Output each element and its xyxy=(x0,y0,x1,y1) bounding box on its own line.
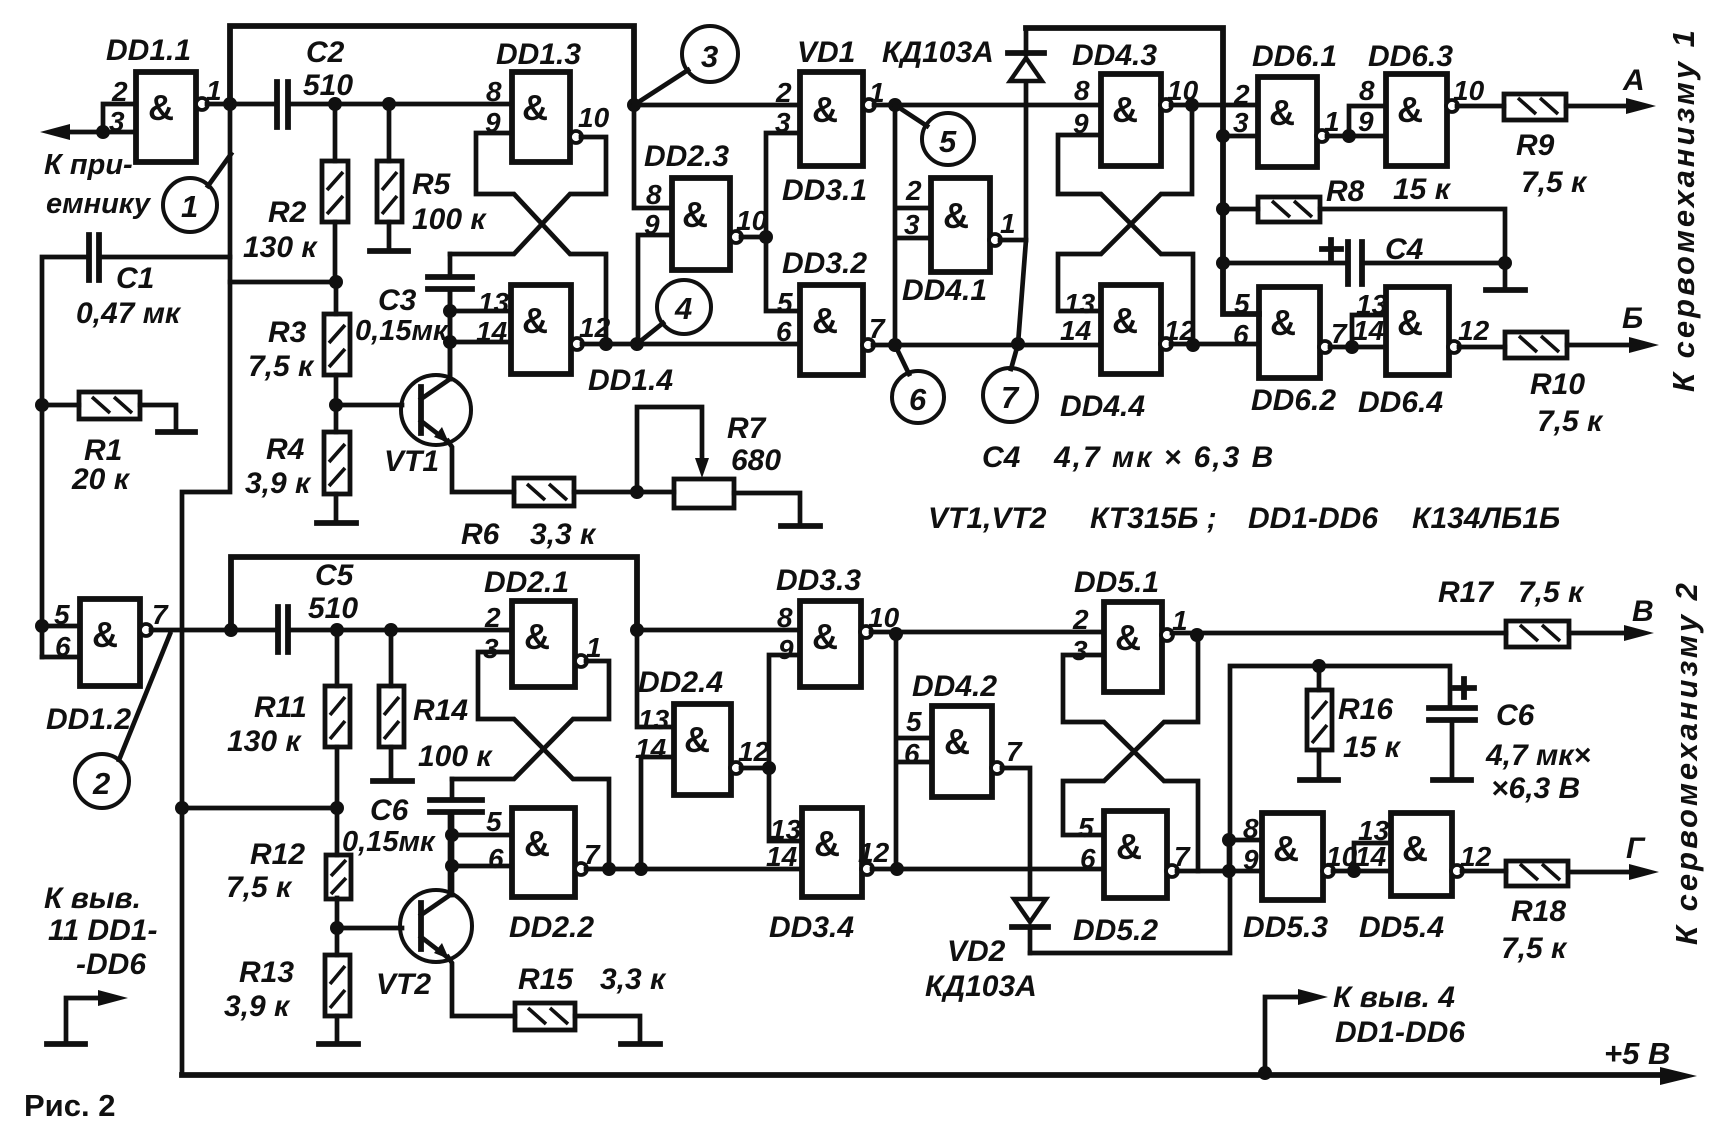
svg-text:0,15мк: 0,15мк xyxy=(342,826,436,858)
gate DD6.2 xyxy=(1233,287,1348,417)
svg-text:3,9 к: 3,9 к xyxy=(245,467,312,500)
gate DD3.2 xyxy=(776,247,886,375)
gate DD6.4 xyxy=(1353,287,1490,419)
svg-text:R2: R2 xyxy=(268,196,307,229)
svg-text:К выв. 4: К выв. 4 xyxy=(1333,981,1455,1014)
svg-text:R14: R14 xyxy=(413,694,468,727)
junction (606,344) xyxy=(599,337,613,351)
wire DD2.3 pin9 down to DD1.4 out xyxy=(638,235,672,344)
resistor R15 xyxy=(515,963,667,1042)
junction (452,835) xyxy=(445,828,459,842)
svg-text:DD3.3: DD3.3 xyxy=(776,564,861,597)
wire lower rail loop xyxy=(231,557,637,630)
gate DD5.1 xyxy=(1072,566,1188,692)
svg-text:C4: C4 xyxy=(1385,233,1424,266)
junction (766,237) xyxy=(759,230,773,244)
junction (895,345) xyxy=(888,338,902,352)
resistor R17 xyxy=(1438,576,1634,647)
svg-text:DD3.4: DD3.4 xyxy=(769,911,854,944)
wire C6 node to DD2.2 pins xyxy=(452,812,512,895)
svg-text:5: 5 xyxy=(939,124,957,159)
junction (42,405) xyxy=(35,398,49,412)
ground R4 xyxy=(317,520,356,526)
svg-text:3: 3 xyxy=(1072,635,1088,666)
svg-text:DD1-DD6: DD1-DD6 xyxy=(1335,1016,1465,1049)
junction (1319,666) xyxy=(1312,659,1326,673)
diode VD1 xyxy=(797,28,1044,344)
svg-text:&: & xyxy=(524,823,550,864)
svg-text:8: 8 xyxy=(1074,75,1090,106)
svg-text:6: 6 xyxy=(909,382,927,417)
svg-text:130 к: 130 к xyxy=(243,231,318,264)
wire DD1.2 inputs xyxy=(42,626,80,657)
wire DD3.3 out row xyxy=(871,630,1104,635)
junction (895,105) xyxy=(888,98,902,112)
wire DD3.2 out row xyxy=(873,343,1101,348)
wire DD3.3 node to DD4.2 pins xyxy=(896,634,932,869)
capacitor C4 xyxy=(1223,233,1505,284)
resistor R8 xyxy=(1223,173,1505,263)
wire base VT1 xyxy=(336,403,402,408)
wire DD5.1 out cross-loop to DD5.2 pin5 xyxy=(1063,633,1506,835)
resistor R18 xyxy=(1462,861,1639,965)
svg-text:VD2: VD2 xyxy=(947,935,1006,968)
svg-text:6: 6 xyxy=(488,843,504,874)
gate DD3.4 xyxy=(766,808,890,944)
svg-text:КД103А: КД103А xyxy=(925,970,1037,1003)
svg-text:DD6.2: DD6.2 xyxy=(1251,384,1336,417)
wire VT1 emitter xyxy=(448,441,514,492)
svg-text:12: 12 xyxy=(738,736,770,767)
svg-text:DD6.3: DD6.3 xyxy=(1368,40,1453,73)
svg-text:13: 13 xyxy=(638,704,670,735)
svg-text:8: 8 xyxy=(777,602,793,633)
ground R16 xyxy=(1300,777,1338,783)
node circle 6 xyxy=(892,345,944,423)
svg-text:1: 1 xyxy=(1000,208,1016,239)
svg-text:R7: R7 xyxy=(727,412,767,445)
svg-text:7,5 к: 7,5 к xyxy=(226,871,293,904)
svg-text:DD1.2: DD1.2 xyxy=(46,703,131,736)
capacitor C5 xyxy=(278,559,358,652)
resistor R13 xyxy=(224,928,350,1042)
gate DD4.4 xyxy=(1060,285,1196,423)
svg-text:9: 9 xyxy=(644,209,660,240)
svg-text:3: 3 xyxy=(701,39,718,74)
wire DD1.3 pin9 cross-loop (from DD1.4 out) xyxy=(476,133,606,344)
junction (1354,871) xyxy=(1347,864,1361,878)
svg-text:К сервомеханизму 2: К сервомеханизму 2 xyxy=(1669,580,1704,945)
svg-text:7,5 к: 7,5 к xyxy=(1518,576,1585,609)
resistor R3 xyxy=(248,282,350,405)
ground R14 xyxy=(373,778,412,784)
svg-text:К134ЛБ1Б: К134ЛБ1Б xyxy=(1412,502,1560,535)
gate DD3.1 xyxy=(775,72,885,207)
svg-text:8: 8 xyxy=(1243,813,1259,844)
gate DD1.3 xyxy=(485,38,610,162)
resistor R9 xyxy=(1457,94,1636,199)
ground C6-2 xyxy=(1433,777,1471,783)
svg-text:R6: R6 xyxy=(461,518,500,551)
svg-text:DD5.2: DD5.2 xyxy=(1073,914,1158,947)
svg-text:К при-: К при- xyxy=(44,149,133,181)
svg-text:&: & xyxy=(944,721,970,762)
svg-text:&: & xyxy=(524,616,550,657)
wire DD4.1 out to VD1 xyxy=(1000,238,1026,243)
gate DD4.3 xyxy=(1072,39,1199,166)
svg-text:14: 14 xyxy=(635,733,667,764)
svg-text:&: & xyxy=(92,614,118,655)
svg-text:7: 7 xyxy=(1001,380,1020,415)
gate DD4.1 xyxy=(902,175,1016,307)
svg-text:4: 4 xyxy=(674,291,692,326)
svg-text:12: 12 xyxy=(1460,841,1492,872)
resistor R4 xyxy=(245,405,350,521)
svg-text:&: & xyxy=(812,616,838,657)
svg-text:12: 12 xyxy=(1458,315,1490,346)
wire bias chain to lower rail xyxy=(182,257,230,1075)
wire R7 to ground xyxy=(734,493,800,524)
junction (1265,1073) xyxy=(1258,1066,1272,1080)
ground R13 xyxy=(319,1041,358,1047)
svg-text:510: 510 xyxy=(303,69,353,102)
svg-text:4,7 мк × 6,3 В: 4,7 мк × 6,3 В xyxy=(1053,441,1275,474)
svg-text:R17: R17 xyxy=(1438,576,1494,609)
svg-text:7,5 к: 7,5 к xyxy=(1501,932,1568,965)
wire DD6.1 out to DD6.3 pins xyxy=(1327,106,1386,136)
arrow К приемнику xyxy=(40,124,70,140)
svg-text:DD4.1: DD4.1 xyxy=(902,274,987,307)
junction (1349,136) xyxy=(1342,129,1356,143)
resistor R1 xyxy=(42,392,176,496)
svg-text:5: 5 xyxy=(1078,812,1094,843)
svg-text:DD5.3: DD5.3 xyxy=(1243,911,1328,944)
junction (1229,840) xyxy=(1222,833,1236,847)
junction (42,626) xyxy=(35,619,49,633)
capacitor C6 xyxy=(342,779,482,858)
svg-text:8: 8 xyxy=(646,179,662,210)
arrow output A xyxy=(1626,98,1656,114)
wire DD1.1 output xyxy=(207,102,277,107)
svg-text:DD3.2: DD3.2 xyxy=(782,247,867,280)
svg-text:R9: R9 xyxy=(1516,129,1555,162)
svg-text:R10: R10 xyxy=(1530,368,1585,401)
svg-text:VD1: VD1 xyxy=(797,36,855,69)
svg-text:&: & xyxy=(1402,828,1428,869)
wire R6 to R7 xyxy=(574,490,674,495)
wire DD3.1 out to DD4.3 pin8 xyxy=(874,103,1101,108)
svg-text:9: 9 xyxy=(1243,844,1259,875)
node circle 2 xyxy=(75,634,170,808)
junction (335,104) xyxy=(328,97,342,111)
diode VD2 xyxy=(925,899,1048,1003)
svg-text:-DD6: -DD6 xyxy=(76,948,146,981)
capacitor C1 xyxy=(42,104,230,657)
svg-text:R3: R3 xyxy=(268,316,307,349)
svg-text:5: 5 xyxy=(906,706,922,737)
gate DD2.3 xyxy=(644,140,768,270)
svg-text:3,9 к: 3,9 к xyxy=(224,990,291,1023)
junction (337,928) xyxy=(330,921,344,935)
svg-text:&: & xyxy=(522,300,548,341)
wire DD5.2 out row xyxy=(1177,869,1262,874)
gate DD3.3 xyxy=(776,564,900,687)
wire DD1.2 output row xyxy=(151,628,512,633)
junction (1223,209) xyxy=(1216,202,1230,216)
wire rail node to DD3.3 pin8 xyxy=(637,628,800,633)
capacitor C6-2 xyxy=(1319,666,1591,805)
svg-text:DD2.4: DD2.4 xyxy=(638,666,723,699)
arrow output Б xyxy=(1629,337,1659,353)
junction (1018,344) xyxy=(1011,337,1025,351)
wire DD2.2 output row xyxy=(586,867,802,872)
gate DD5.4 xyxy=(1355,813,1492,944)
junction (336,282) xyxy=(329,275,343,289)
svg-text:C3: C3 xyxy=(378,284,417,317)
svg-text:DD4.2: DD4.2 xyxy=(912,670,997,703)
svg-text:11 DD1-: 11 DD1- xyxy=(48,914,157,947)
junction (230,104) xyxy=(223,97,237,111)
svg-text:14: 14 xyxy=(1353,315,1385,346)
junction (1223,263) xyxy=(1216,256,1230,270)
svg-text:20 к: 20 к xyxy=(71,463,131,496)
wire VD2 to DD5.2 out loop xyxy=(1030,666,1319,953)
arrow output В xyxy=(1624,625,1654,641)
gate DD6.1 xyxy=(1233,40,1340,167)
svg-text:&: & xyxy=(1273,828,1299,869)
svg-text:6: 6 xyxy=(1233,319,1249,350)
svg-text:8: 8 xyxy=(1359,75,1375,106)
svg-text:3,3 к: 3,3 к xyxy=(600,963,667,996)
wire rail to DD2.4 pin13 xyxy=(637,630,674,727)
svg-text:DD2.1: DD2.1 xyxy=(484,566,569,599)
node circle 3 xyxy=(634,26,738,105)
junction (634,105) xyxy=(627,98,641,112)
svg-text:КТ315Б ;: КТ315Б ; xyxy=(1090,502,1217,535)
svg-text:DD3.1: DD3.1 xyxy=(782,174,867,207)
transistor VT1 xyxy=(384,375,471,478)
junction (337,630) xyxy=(330,623,344,637)
svg-text:9: 9 xyxy=(1358,106,1374,137)
junction (609,869) xyxy=(602,862,616,876)
svg-text:К выв.: К выв. xyxy=(44,882,141,915)
gate DD1.4 xyxy=(476,285,673,397)
junction (641,869) xyxy=(634,862,648,876)
svg-text:2: 2 xyxy=(1233,79,1250,110)
svg-text:DD6.1: DD6.1 xyxy=(1252,40,1337,73)
svg-text:&: & xyxy=(943,195,969,236)
svg-text:&: & xyxy=(522,87,548,128)
svg-text:R18: R18 xyxy=(1511,895,1566,928)
wire DD4.4 out row xyxy=(1171,342,1259,347)
wire VT2 emitter to R15 xyxy=(448,957,515,1016)
svg-text:7: 7 xyxy=(1331,318,1348,349)
wire DD2.1 pin3 cross-loop xyxy=(478,652,609,869)
junction (1229,871) xyxy=(1222,864,1236,878)
node circle 1 xyxy=(163,154,231,232)
ground R1 xyxy=(158,429,195,435)
wire DD1.4 output row xyxy=(582,342,800,347)
junction (450,311) xyxy=(443,304,457,318)
svg-text:6: 6 xyxy=(1080,843,1096,874)
junction (637,630) xyxy=(630,623,644,637)
ground R15 xyxy=(621,1041,660,1047)
wire DD2.4 out to DD3.3 pin9 / DD3.4 pin13 xyxy=(741,655,802,841)
gate DD5.2 xyxy=(1073,811,1191,947)
wire VT1 collector to C3 node xyxy=(448,289,453,379)
svg-text:C1: C1 xyxy=(116,262,154,295)
svg-text:DD1-DD6: DD1-DD6 xyxy=(1248,502,1378,535)
ground C4 xyxy=(1503,263,1508,288)
gate DD4.2 xyxy=(904,670,1023,797)
svg-text:DD4.3: DD4.3 xyxy=(1072,39,1157,72)
node circle 7 xyxy=(983,344,1037,422)
svg-text:DD1.3: DD1.3 xyxy=(496,38,581,71)
svg-text:+5 В: +5 В xyxy=(1604,1036,1670,1071)
junction (769,768) xyxy=(762,761,776,775)
transistor VT2 xyxy=(376,890,472,1001)
svg-text:&: & xyxy=(1397,89,1423,130)
node circle 5 xyxy=(895,105,974,165)
svg-text:К сервомеханизму 1: К сервомеханизму 1 xyxy=(1666,27,1701,392)
arrow +5V xyxy=(1660,1067,1697,1085)
svg-text:В: В xyxy=(1632,595,1654,628)
junction (391,630) xyxy=(384,623,398,637)
arrow output Г xyxy=(1629,864,1659,880)
svg-text:6: 6 xyxy=(776,316,792,347)
wire node3 to DD3.1 pin2 xyxy=(634,103,800,108)
svg-text:&: & xyxy=(1112,300,1138,341)
ground R7 xyxy=(781,523,820,529)
resistor R12 xyxy=(226,808,351,928)
svg-text:100 к: 100 к xyxy=(412,203,487,236)
svg-text:3: 3 xyxy=(1233,107,1249,138)
svg-text:R16: R16 xyxy=(1338,693,1393,726)
svg-text:3: 3 xyxy=(904,209,920,240)
svg-text:Г: Г xyxy=(1626,832,1646,865)
svg-text:1: 1 xyxy=(181,189,198,224)
svg-text:&: & xyxy=(812,89,838,130)
wire node3 vertical to DD2.3 pin8 xyxy=(634,105,672,208)
svg-text:VT1,VT2: VT1,VT2 xyxy=(928,502,1047,535)
svg-text:R11: R11 xyxy=(254,691,307,724)
resistor R14 xyxy=(379,630,493,779)
node circle 4 xyxy=(637,280,711,344)
svg-text:А: А xyxy=(1622,64,1645,97)
svg-text:6: 6 xyxy=(904,738,920,769)
svg-text:R12: R12 xyxy=(250,838,305,871)
gate DD6.3 xyxy=(1358,40,1485,166)
junction (450,342) xyxy=(443,335,457,349)
svg-text:VT2: VT2 xyxy=(376,968,431,1001)
svg-text:14: 14 xyxy=(1060,315,1092,346)
gate DD2.4 xyxy=(635,666,770,795)
svg-text:14: 14 xyxy=(1355,841,1387,872)
svg-text:DD1.1: DD1.1 xyxy=(106,34,191,67)
wire DD1.1 inputs tie xyxy=(103,104,136,132)
junction (389,104) xyxy=(382,97,396,111)
wire К выв.4 branch xyxy=(1265,997,1305,1073)
svg-text:DD2.3: DD2.3 xyxy=(644,140,729,173)
svg-text:&: & xyxy=(1112,89,1138,130)
wire R11/R12 node row xyxy=(182,806,337,811)
svg-text:&: & xyxy=(1115,617,1141,658)
wire DD6.2 out to DD6.4 pins xyxy=(1330,315,1386,347)
svg-text:&: & xyxy=(1269,92,1295,133)
junction (1197,635) xyxy=(1190,628,1204,642)
svg-text:2: 2 xyxy=(92,766,110,801)
svg-text:7: 7 xyxy=(1006,736,1023,767)
resistor R6 xyxy=(461,478,597,551)
svg-text:R15: R15 xyxy=(518,963,574,996)
svg-text:2: 2 xyxy=(905,175,922,206)
svg-text:&: & xyxy=(1397,302,1423,343)
wire to receiver xyxy=(52,130,103,135)
svg-text:Б: Б xyxy=(1622,302,1643,335)
svg-text:680: 680 xyxy=(731,444,781,477)
svg-text:7,5 к: 7,5 к xyxy=(248,350,315,383)
svg-text:&: & xyxy=(1270,302,1296,343)
resistor R11 xyxy=(227,630,350,808)
svg-text:VT1: VT1 xyxy=(384,445,439,478)
junction (452,866) xyxy=(445,859,459,873)
svg-text:130 к: 130 к xyxy=(227,725,302,758)
svg-text:&: & xyxy=(148,87,174,128)
svg-text:8: 8 xyxy=(486,76,502,107)
junction (231,630) xyxy=(224,623,238,637)
svg-text:15 к: 15 к xyxy=(1343,731,1402,764)
wire DD4.2 out to VD2 xyxy=(1002,768,1030,897)
wire C2 to DD1.3 pin8 xyxy=(288,102,512,107)
wire DD4.3 pin9 cross-loop xyxy=(1058,135,1193,345)
resistor R5 xyxy=(377,104,487,249)
svg-text:&: & xyxy=(682,194,708,235)
svg-text:10: 10 xyxy=(578,102,610,133)
svg-text:C6: C6 xyxy=(1496,699,1535,732)
junction (1505,263) xyxy=(1498,256,1512,270)
gate DD5.3 xyxy=(1243,813,1358,944)
junction (1223,136) xyxy=(1216,129,1230,143)
svg-text:C2: C2 xyxy=(306,36,345,69)
junction (336,405) xyxy=(329,398,343,412)
svg-text:3,3 к: 3,3 к xyxy=(530,518,597,551)
wire DD2.3 out to DD3.1 pin3 / DD3.2 pin5 xyxy=(741,133,800,311)
svg-text:3: 3 xyxy=(483,633,499,664)
wire VD1 top rail xyxy=(1026,28,1259,314)
wire C3 node to DD1.4 pins 13,14 xyxy=(450,289,511,379)
svg-text:2: 2 xyxy=(484,602,501,633)
svg-text:2: 2 xyxy=(1072,604,1089,635)
svg-text:DD6.4: DD6.4 xyxy=(1358,386,1443,419)
wire node5 to DD4.1 pins xyxy=(895,105,931,345)
junction (1352,347) xyxy=(1345,340,1359,354)
svg-text:C4: C4 xyxy=(982,441,1021,474)
svg-text:14: 14 xyxy=(766,841,798,872)
resistor R2 xyxy=(243,104,348,282)
wire DD1.3 out10 cross-loop (to C3) xyxy=(450,137,606,254)
wire DD5.1 pin3 cross-loop xyxy=(1063,655,1198,871)
svg-text:DD1.4: DD1.4 xyxy=(588,364,673,397)
svg-text:DD4.4: DD4.4 xyxy=(1060,390,1145,423)
svg-text:0,15мк: 0,15мк xyxy=(355,315,449,347)
svg-text:5: 5 xyxy=(777,287,793,318)
wire bottom +5V rail xyxy=(182,1072,1664,1078)
svg-text:R4: R4 xyxy=(266,433,305,466)
wire R2/R3 node to left chain xyxy=(230,280,336,285)
wire VT2 collector to C6 node xyxy=(448,812,453,895)
wire DD5.3 pin8 stub xyxy=(1229,840,1262,871)
junction (897,869) xyxy=(890,862,904,876)
